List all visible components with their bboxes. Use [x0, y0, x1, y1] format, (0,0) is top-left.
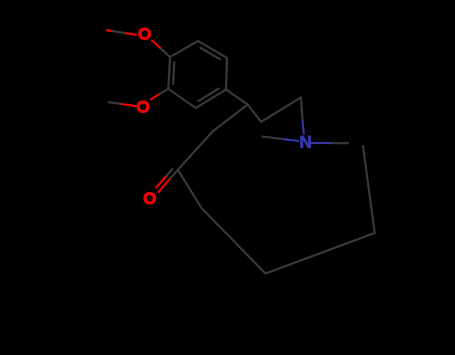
bond O2 methyl gray half — [109, 102, 123, 104]
ketone C=O parallel line red half — [156, 175, 167, 187]
bond L to M2 — [363, 146, 375, 233]
bond O2 methyl red half — [122, 104, 136, 106]
bond J to K — [202, 208, 266, 273]
ketone C=O main line red half — [159, 178, 171, 192]
bond G to H — [213, 105, 248, 132]
bond O1 to ring A red half — [152, 41, 161, 49]
bond G to C3 — [248, 105, 262, 122]
svg-text:O: O — [138, 24, 151, 43]
bond N left methyl gray half — [263, 137, 282, 139]
bond O1 methyl red half — [126, 33, 136, 35]
bond N right methyl blue half — [312, 142, 332, 144]
bond O1 methyl gray half — [107, 30, 126, 33]
bond O1 methyl red tip — [107, 29, 111, 32]
double bond inner line F-E — [200, 48, 220, 60]
svg-text:O: O — [136, 98, 149, 117]
bond C2 to N blue half — [303, 121, 304, 133]
svg-text:O: O — [143, 189, 156, 208]
benzene ring — [168, 41, 227, 108]
bond K to L — [266, 233, 375, 274]
bond O2 to ring B red half — [151, 94, 160, 100]
bond H to carbonyl C — [178, 132, 213, 170]
ketone C=O parallel line gray half — [167, 169, 173, 175]
svg-text:N: N — [299, 133, 311, 152]
ketone C=O main line gray half — [171, 170, 178, 178]
bond O2 to ring B gray half — [160, 89, 169, 94]
double bond inner line A-B — [173, 62, 174, 84]
bond D to G — [226, 90, 248, 105]
bond C2 to N gray half — [301, 98, 303, 122]
bond C3 to C2 — [261, 98, 301, 122]
bond O1 to ring A gray half — [161, 49, 170, 57]
bond N left methyl blue half — [282, 139, 299, 141]
bond N right methyl gray half — [332, 142, 348, 144]
bond carbonyl C to J — [178, 170, 202, 209]
double bond inner line C-D — [198, 89, 219, 102]
